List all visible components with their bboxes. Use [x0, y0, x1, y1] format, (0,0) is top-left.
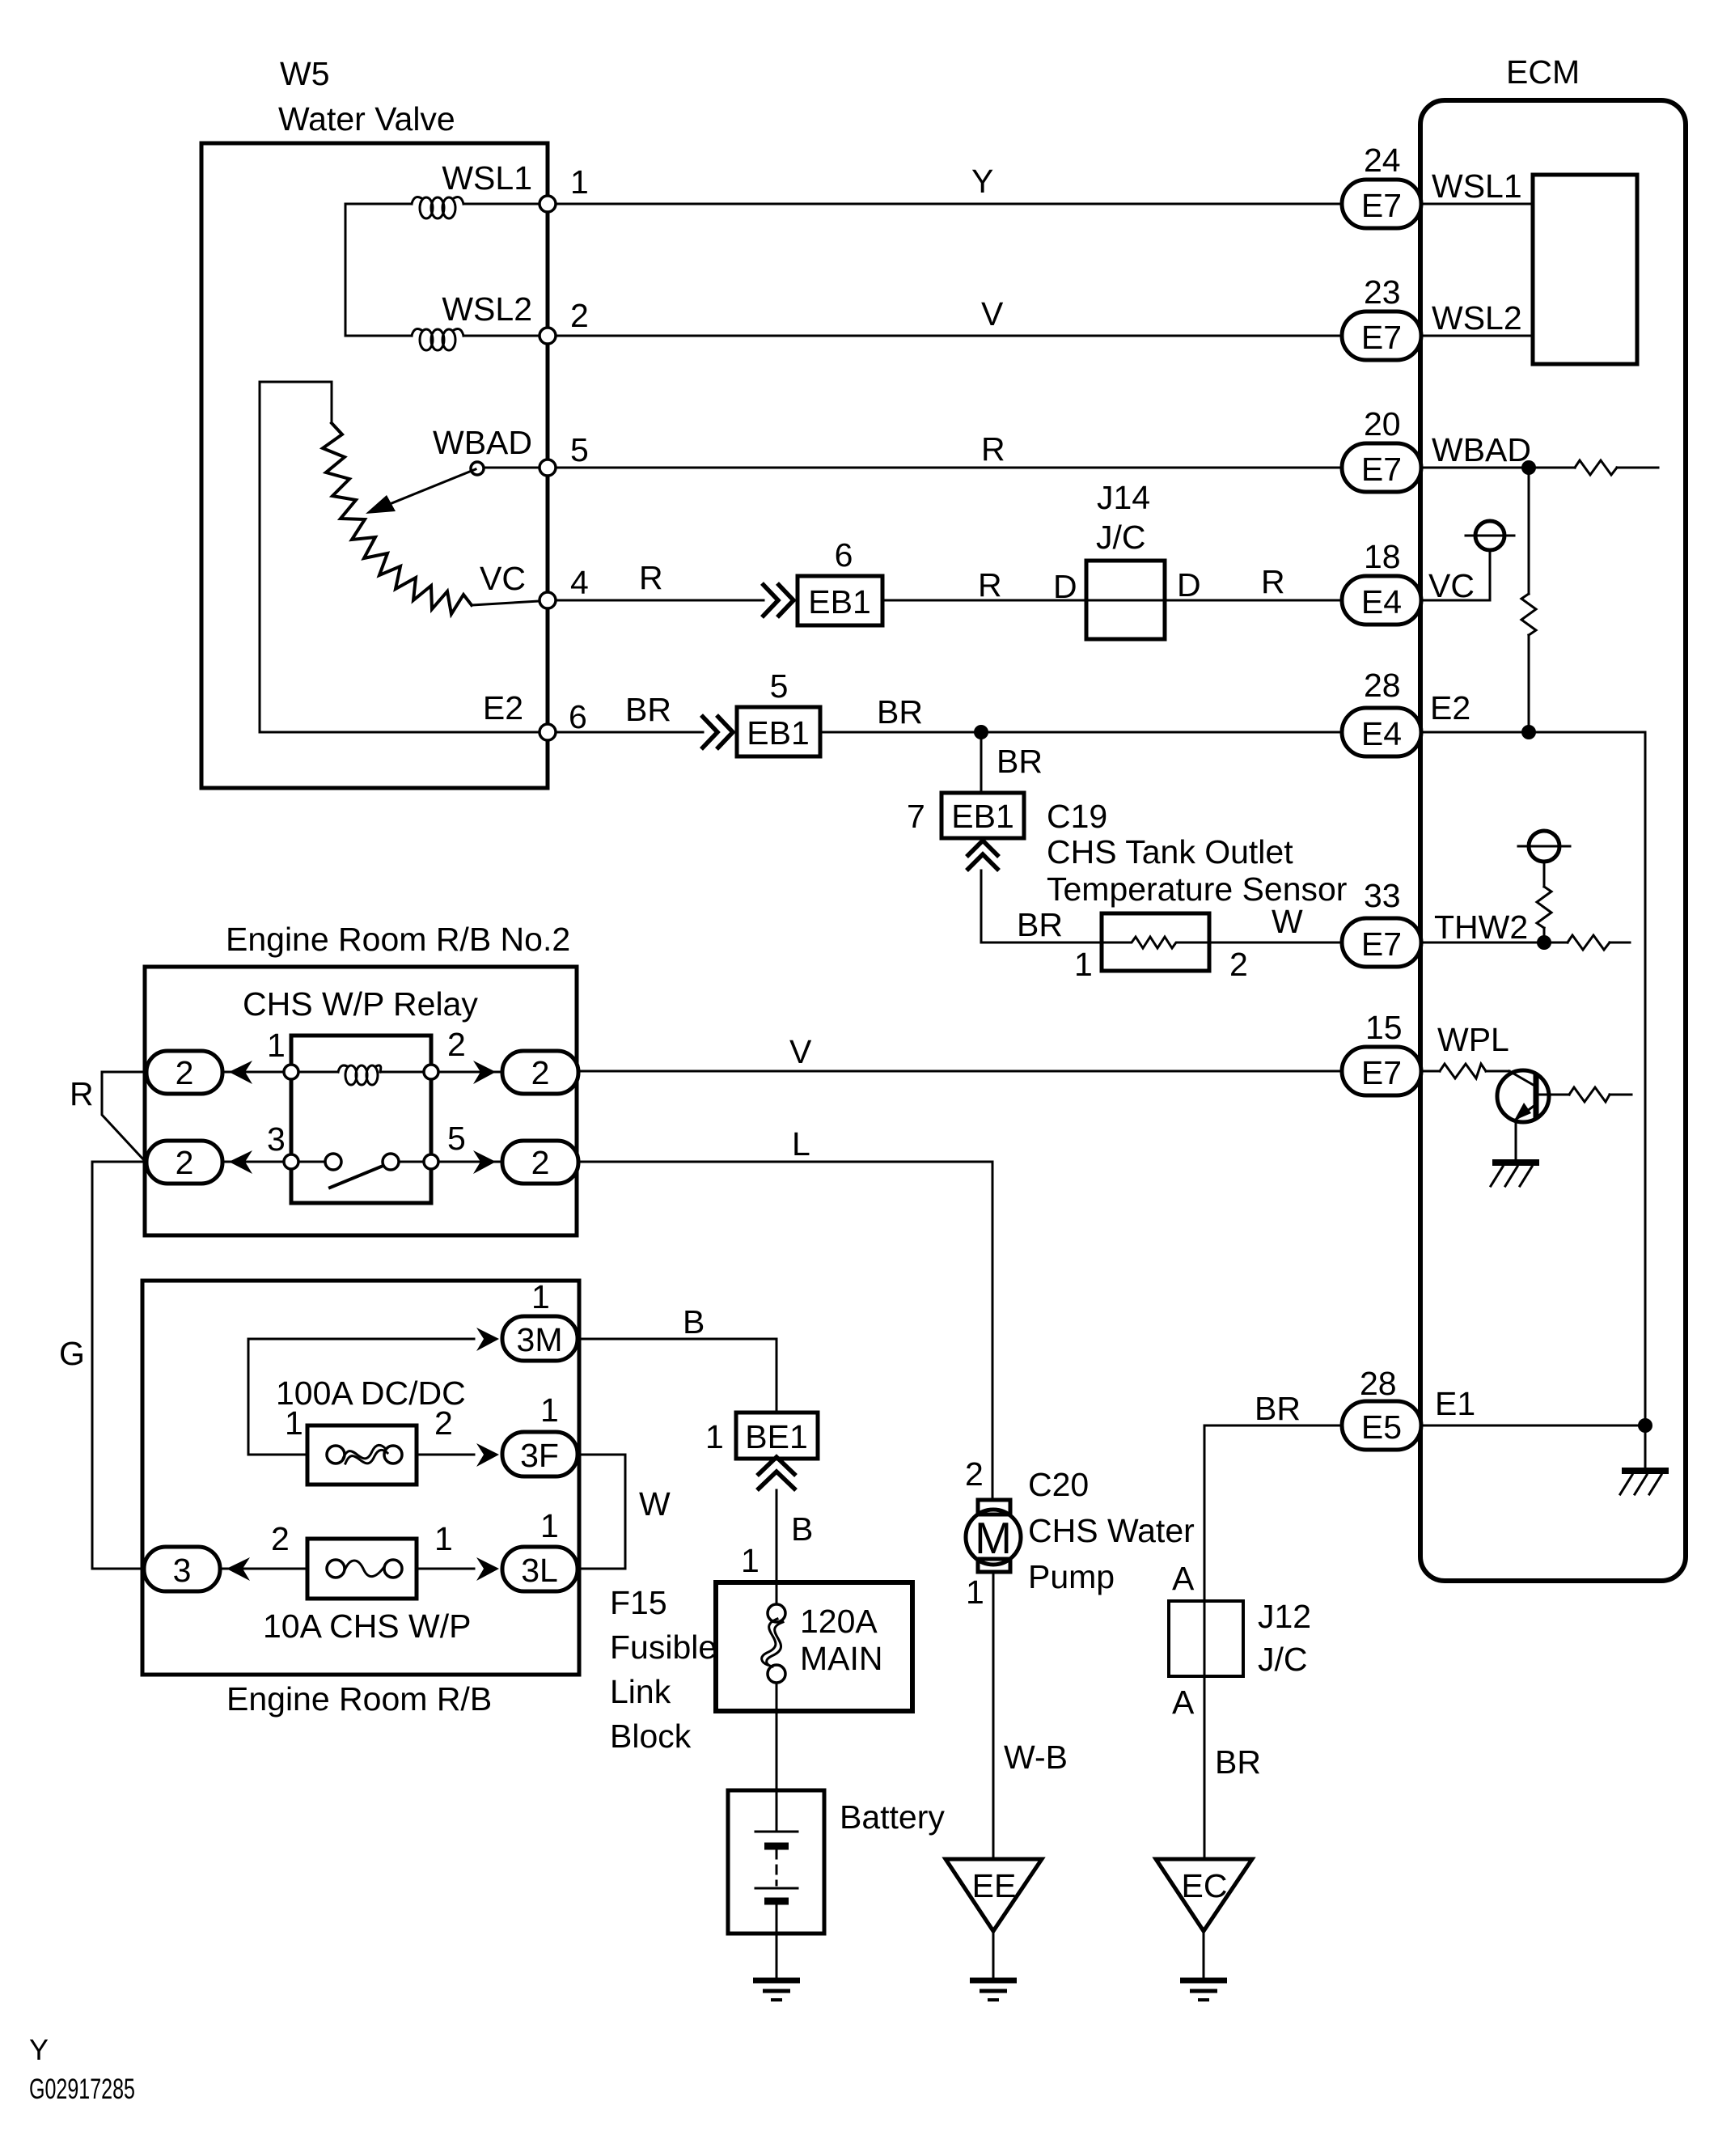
wire transistor base — [1538, 1094, 1569, 1096]
svg-text:WBAD: WBAD — [1432, 431, 1531, 468]
pin 2 of relay — [424, 1065, 438, 1079]
svg-text:E7: E7 — [1361, 451, 1402, 488]
svg-text:4: 4 — [570, 564, 589, 601]
connector oval E4 pin28 E2 — [1342, 708, 1421, 756]
wire BR: EB1 to ECM E2 — [820, 731, 1342, 734]
inductor relay coil — [338, 1065, 381, 1085]
svg-text:2: 2 — [531, 1054, 550, 1091]
arrow out of pin2 — [473, 1061, 496, 1084]
svg-text:5: 5 — [570, 431, 589, 468]
wire L: relay pin5 to water pump — [578, 1162, 992, 1500]
wire pot bottom to pin 4 — [472, 601, 540, 605]
resistor divider (WBAD to E2) — [1521, 594, 1536, 635]
svg-text:J14: J14 — [1097, 479, 1150, 516]
arrow into 3M — [476, 1328, 499, 1351]
wire R into relay pin1 — [102, 1072, 146, 1160]
inductor WSL1 coil — [412, 197, 463, 218]
svg-text:A: A — [1172, 1560, 1195, 1597]
node WBAD junction — [1521, 460, 1536, 475]
svg-text:E4: E4 — [1361, 715, 1402, 752]
node wiper contact — [471, 462, 484, 475]
svg-text:E7: E7 — [1361, 187, 1402, 224]
svg-text:Y: Y — [29, 2033, 49, 2066]
pin 5 of relay — [424, 1154, 438, 1169]
svg-text:3: 3 — [267, 1120, 286, 1158]
ECM internal block — [1533, 175, 1637, 364]
node junction on BR wire — [974, 725, 988, 739]
svg-text:M: M — [975, 1513, 1012, 1563]
arrow out of 10A fuse — [226, 1557, 250, 1581]
svg-text:VC: VC — [480, 560, 526, 597]
svg-text:1: 1 — [540, 1391, 559, 1429]
resistor element inside C19 — [1102, 937, 1209, 948]
svg-text:E2: E2 — [1430, 689, 1470, 726]
svg-text:1: 1 — [741, 1542, 760, 1579]
wire W: C19 to ECM THW2 — [1209, 942, 1342, 944]
svg-text:R: R — [978, 566, 1002, 604]
battery Battery box — [728, 1790, 824, 1934]
svg-text:BR: BR — [877, 693, 923, 731]
svg-text:2: 2 — [176, 1144, 194, 1181]
svg-text:Battery: Battery — [840, 1798, 945, 1836]
pin 3 of relay — [284, 1154, 298, 1169]
svg-text:6: 6 — [569, 698, 587, 735]
svg-text:1: 1 — [705, 1418, 724, 1455]
svg-text:1: 1 — [540, 1507, 559, 1544]
svg-text:E5: E5 — [1361, 1408, 1402, 1446]
resistor THW2 series — [1568, 935, 1610, 950]
component F15 fusible link block box — [716, 1582, 912, 1711]
svg-text:Block: Block — [610, 1718, 692, 1755]
wire W5 coil common vertical — [345, 204, 347, 336]
wire WBAD internal with pull resistor — [1421, 467, 1575, 469]
shield chevrons below BE1 — [757, 1457, 796, 1490]
wire into battery — [776, 1790, 778, 1832]
svg-text:C20: C20 — [1028, 1466, 1089, 1503]
connector oval E7 pin23 WSL2 — [1342, 311, 1421, 360]
svg-text:W5: W5 — [280, 55, 330, 92]
svg-text:1: 1 — [1074, 946, 1093, 983]
connector EB1 (pin 5) — [737, 707, 820, 756]
wire G from relay pin3 to Engine Room R/B — [92, 1162, 146, 1569]
svg-text:F15: F15 — [610, 1584, 667, 1621]
svg-text:CHS Water: CHS Water — [1028, 1512, 1195, 1549]
svg-text:1: 1 — [531, 1278, 550, 1315]
svg-text:2: 2 — [965, 1455, 984, 1493]
svg-text:C19: C19 — [1047, 798, 1107, 835]
pin 4 of W5 — [540, 592, 556, 608]
svg-text:2: 2 — [271, 1520, 290, 1557]
wire relay pin5 stub — [430, 1161, 502, 1163]
pin 6 of W5 — [540, 724, 556, 740]
svg-text:VC: VC — [1428, 567, 1475, 604]
svg-text:28: 28 — [1364, 667, 1401, 704]
wire R: W5 pin5 to ECM WBAD — [556, 467, 1342, 469]
wire relay pin1 stub — [222, 1071, 291, 1074]
arrow into pin3 — [229, 1150, 252, 1174]
wire THW2 internal — [1421, 942, 1568, 944]
fuse 10A CHS W/P box — [307, 1539, 417, 1599]
sensor C19 CHS tank outlet temperature sensor box — [1102, 913, 1209, 971]
svg-text:E7: E7 — [1361, 1054, 1402, 1091]
svg-text:WBAD: WBAD — [433, 424, 532, 461]
svg-text:2: 2 — [1229, 946, 1248, 983]
svg-text:28: 28 — [1360, 1365, 1397, 1402]
ground below EE — [970, 1980, 1017, 2000]
svg-text:2: 2 — [447, 1026, 466, 1063]
wire BR: ECM E1 to J12 to EC — [1204, 1425, 1342, 1859]
connector oval E5 pin28 E1 — [1342, 1401, 1421, 1450]
wire VC internal to reference — [1421, 551, 1490, 600]
svg-text:WSL2: WSL2 — [442, 290, 532, 328]
wire EC to ground — [1203, 1931, 1205, 1979]
wire R: EB1 to J14 — [882, 599, 1086, 602]
svg-text:1: 1 — [267, 1027, 286, 1064]
arrow into pin1 — [229, 1061, 252, 1084]
wire 10A fuse to 3L — [417, 1568, 474, 1570]
svg-text:WSL1: WSL1 — [442, 159, 532, 197]
svg-text:Water Valve: Water Valve — [278, 100, 455, 138]
wire emitter to chassis ground — [1515, 1120, 1517, 1160]
wire B: BE1 to fusible link block — [776, 1490, 778, 1582]
svg-text:BR: BR — [1255, 1390, 1301, 1427]
svg-text:Link: Link — [610, 1673, 671, 1710]
wiper arrow — [382, 469, 476, 507]
svg-text:2: 2 — [434, 1404, 453, 1442]
wire V: W5 pin2 to ECM WSL2 — [556, 335, 1342, 337]
svg-text:EB1: EB1 — [951, 798, 1014, 835]
wire THW2 pullup — [1543, 928, 1546, 942]
shield chevrons into EB1 (E2 row) — [701, 715, 733, 749]
reference terminal circle (VC) — [1475, 521, 1504, 550]
node E2 junction — [1521, 725, 1536, 739]
relay CHS W/P Relay body box — [291, 1036, 431, 1203]
chassis ground (transistor emitter) — [1492, 1159, 1539, 1166]
wire WPL internal — [1421, 1070, 1440, 1073]
svg-text:R: R — [639, 559, 663, 596]
svg-text:G02917285: G02917285 — [29, 2073, 135, 2105]
wire relay pin3 stub — [222, 1161, 291, 1163]
wire EE to ground — [992, 1931, 995, 1979]
svg-text:V: V — [981, 295, 1004, 333]
wire switch leads — [291, 1161, 325, 1163]
svg-text:THW2: THW2 — [1434, 909, 1528, 946]
fuse 10A terminals — [327, 1560, 345, 1578]
fuse 10A element — [345, 1561, 383, 1577]
svg-text:W: W — [1272, 903, 1303, 940]
wire relay pin2 stub — [430, 1071, 502, 1074]
pin 5 of W5 — [540, 460, 556, 476]
wire WSL2 stub inside ECM — [1421, 335, 1533, 337]
wire BR: W5 pin6 to EB1 — [556, 731, 703, 734]
resistor WBAD internal — [1575, 460, 1617, 475]
reference terminal circle (THW2) — [1529, 831, 1559, 862]
svg-text:WPL: WPL — [1437, 1021, 1509, 1058]
svg-text:24: 24 — [1364, 142, 1401, 179]
connector oval E7 pin33 THW2 — [1342, 918, 1421, 967]
wire R: J14 to ECM VC — [1165, 599, 1342, 602]
wire 3M feed — [248, 1339, 474, 1455]
switch contact nodes — [325, 1154, 341, 1170]
svg-text:18: 18 — [1364, 538, 1401, 575]
wire inside link block — [776, 1582, 778, 1604]
svg-text:23: 23 — [1364, 273, 1401, 311]
resistor THW2 pullup — [1537, 887, 1551, 928]
svg-text:20: 20 — [1364, 405, 1401, 443]
svg-text:5: 5 — [447, 1120, 466, 1157]
connector oval 3F — [502, 1432, 578, 1476]
svg-text:1: 1 — [285, 1404, 303, 1442]
svg-text:2: 2 — [176, 1054, 194, 1091]
fuse 100A fusible element — [343, 1445, 385, 1459]
pin 1 of W5 — [540, 196, 556, 212]
junction J14 J/C box — [1086, 561, 1165, 639]
wire pot return loop — [260, 382, 548, 732]
connector EB1 (pin 7) — [942, 793, 1024, 838]
connector oval 2 (relay pin3 side) — [146, 1141, 222, 1184]
svg-text:5: 5 — [770, 667, 789, 705]
svg-text:120A: 120A — [800, 1603, 878, 1640]
svg-text:R: R — [1261, 563, 1285, 600]
svg-text:15: 15 — [1365, 1009, 1403, 1046]
svg-text:3M: 3M — [517, 1321, 563, 1358]
svg-text:7: 7 — [907, 798, 925, 835]
wire coil leads — [291, 1071, 338, 1074]
wire V: relay pin2 to ECM WPL — [578, 1070, 1342, 1073]
wire W-B: pump to EE — [992, 1572, 995, 1859]
svg-text:Y: Y — [971, 163, 993, 200]
wire WSL1 stub inside ECM — [1421, 203, 1533, 205]
svg-text:Pump: Pump — [1028, 1558, 1115, 1595]
connector oval 3M — [502, 1316, 578, 1361]
shield chevrons below EB1 pin7 — [967, 841, 999, 870]
motor C20 body — [966, 1510, 1021, 1565]
wire battery to ground — [776, 1904, 778, 1979]
wire E2 internal rail — [1421, 732, 1645, 1425]
connector oval E4 pin18 VC — [1342, 576, 1421, 625]
wire BR branch down to EB1 pin7 — [980, 732, 983, 793]
wire WBAD to divider resistor — [1528, 468, 1530, 594]
ground below battery — [753, 1980, 800, 2000]
junction J12 J/C box — [1169, 1601, 1243, 1676]
connector EB1 (pin 6) — [798, 576, 882, 625]
fuse 120A MAIN terminals — [768, 1604, 785, 1622]
connector oval 3 (to G wire) — [144, 1547, 220, 1591]
svg-text:Engine Room R/B: Engine Room R/B — [226, 1680, 492, 1718]
svg-text:D: D — [1177, 566, 1201, 604]
component Engine Room R/B box — [142, 1281, 579, 1675]
svg-text:R: R — [70, 1075, 94, 1112]
svg-text:BR: BR — [997, 743, 1043, 780]
wire E1 internal — [1421, 1425, 1645, 1427]
svg-text:BE1: BE1 — [745, 1418, 808, 1455]
svg-text:1: 1 — [966, 1574, 984, 1611]
connector oval 2 (relay pin5 side) — [502, 1141, 578, 1184]
connector oval 3L — [502, 1547, 578, 1591]
wire fuse 100A to 3F — [417, 1454, 474, 1456]
ground connector EC triangle — [1156, 1859, 1252, 1931]
arrow into 3L — [476, 1557, 499, 1581]
fuse 100A terminals — [327, 1446, 345, 1463]
svg-text:B: B — [683, 1303, 705, 1341]
motor C20 terminals — [978, 1500, 1010, 1514]
wire wiper to pin 5 — [484, 467, 548, 469]
transistor Q driver — [1497, 1070, 1549, 1122]
connector oval E7 pin15 WPL — [1342, 1047, 1421, 1095]
svg-text:J/C: J/C — [1096, 519, 1146, 556]
svg-text:EE: EE — [972, 1867, 1017, 1904]
wire WSL2 coil leads — [345, 335, 412, 337]
arrow into 3F — [476, 1443, 499, 1467]
svg-text:1: 1 — [570, 163, 589, 201]
wire B: 3M to BE1 — [578, 1339, 776, 1413]
svg-text:3: 3 — [173, 1552, 192, 1589]
component W5 Water Valve box — [201, 143, 548, 788]
battery cell plates — [755, 1831, 798, 1833]
svg-text:E1: E1 — [1435, 1385, 1475, 1422]
svg-text:A: A — [1172, 1684, 1195, 1721]
fuse 100A DC/DC box — [307, 1425, 417, 1485]
svg-text:EB1: EB1 — [808, 583, 871, 621]
svg-text:W-B: W-B — [1004, 1739, 1068, 1776]
svg-text:WSL1: WSL1 — [1432, 167, 1522, 205]
arrow out of pin5 — [473, 1150, 496, 1174]
pin 1 of relay — [284, 1065, 298, 1079]
wire oval3 to 10A fuse — [220, 1568, 307, 1570]
connector oval 2 (relay pin1 side) — [146, 1051, 222, 1094]
svg-text:BR: BR — [1017, 906, 1063, 943]
svg-text:MAIN: MAIN — [800, 1640, 883, 1677]
svg-text:ECM: ECM — [1506, 53, 1580, 91]
inductor WSL2 coil — [412, 329, 463, 350]
svg-text:1: 1 — [434, 1520, 453, 1557]
svg-text:E2: E2 — [483, 689, 523, 726]
svg-text:Engine Room R/B No.2: Engine Room R/B No.2 — [226, 921, 570, 958]
svg-text:B: B — [791, 1510, 813, 1548]
svg-text:D: D — [1053, 568, 1077, 605]
svg-text:CHS Tank Outlet: CHS Tank Outlet — [1047, 833, 1293, 870]
node THW2 junction — [1537, 935, 1551, 950]
pin 2 of W5 — [540, 328, 556, 344]
svg-text:EB1: EB1 — [747, 714, 810, 752]
svg-text:BR: BR — [625, 691, 671, 728]
svg-text:WSL2: WSL2 — [1432, 299, 1522, 337]
wire Y: W5 pin1 to ECM WSL1 — [556, 203, 1342, 205]
wire W: 3F to 3L — [578, 1455, 625, 1569]
resistor transistor base — [1569, 1087, 1610, 1102]
connector oval E7 pin20 WBAD — [1342, 443, 1421, 492]
svg-text:2: 2 — [570, 297, 589, 334]
svg-text:BR: BR — [1215, 1743, 1261, 1781]
svg-text:EC: EC — [1182, 1867, 1228, 1904]
svg-text:W: W — [639, 1485, 671, 1523]
wire E1 to chassis ground — [1644, 1425, 1647, 1468]
svg-text:L: L — [792, 1125, 810, 1163]
svg-text:E4: E4 — [1361, 583, 1402, 621]
connector oval 2 (relay pin2 side) — [502, 1051, 578, 1094]
svg-text:33: 33 — [1364, 877, 1401, 914]
wire WSL1 coil leads — [345, 203, 412, 205]
ground below EC — [1180, 1980, 1227, 2000]
svg-text:J12: J12 — [1258, 1598, 1311, 1635]
svg-text:2: 2 — [531, 1144, 550, 1181]
wire R: W5 pin4 to EB1 — [556, 599, 764, 602]
resistor WPL base feed — [1440, 1064, 1486, 1078]
component Engine Room R/B No.2 box — [145, 967, 577, 1235]
wire BR down to C19 row — [981, 870, 1102, 942]
node E1 junction — [1638, 1418, 1652, 1433]
svg-text:CHS W/P Relay: CHS W/P Relay — [243, 985, 478, 1023]
svg-text:J/C: J/C — [1258, 1641, 1308, 1678]
shield chevrons into EB1 (VC row) — [762, 583, 793, 617]
svg-text:R: R — [981, 430, 1005, 468]
switch blade — [330, 1165, 385, 1188]
chassis ground (E1) — [1622, 1468, 1669, 1474]
svg-text:E7: E7 — [1361, 926, 1402, 963]
svg-text:10A CHS W/P: 10A CHS W/P — [263, 1607, 471, 1645]
svg-text:3F: 3F — [520, 1437, 559, 1474]
svg-text:G: G — [59, 1335, 85, 1372]
connector oval E7 pin24 WSL1 — [1342, 180, 1421, 228]
svg-text:Fusible: Fusible — [610, 1629, 717, 1666]
resistor W5 potentiometer element — [323, 423, 472, 614]
fuse 120A MAIN element — [767, 1622, 783, 1667]
svg-text:3L: 3L — [521, 1552, 558, 1589]
wire through J14 — [1086, 599, 1165, 602]
svg-text:E7: E7 — [1361, 319, 1402, 356]
svg-text:6: 6 — [835, 536, 853, 574]
connector BE1 — [736, 1413, 818, 1459]
ground connector EE triangle — [946, 1859, 1042, 1931]
svg-text:V: V — [789, 1033, 812, 1070]
